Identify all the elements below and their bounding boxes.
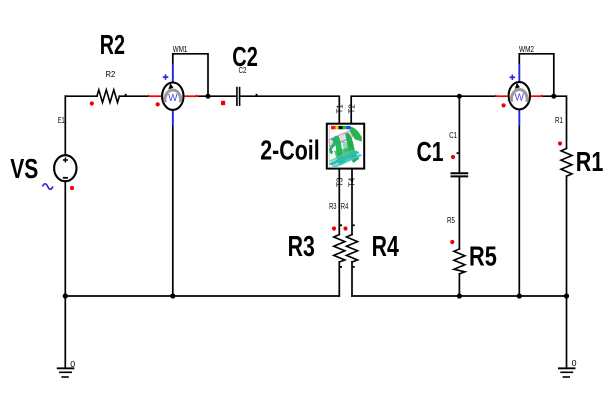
- svg-text:2-Coil: 2-Coil: [260, 135, 320, 166]
- svg-text:R2: R2: [100, 29, 125, 60]
- svg-text:WM1: WM1: [173, 45, 188, 54]
- svg-text:C1: C1: [449, 131, 457, 140]
- svg-text:R5: R5: [447, 216, 455, 225]
- svg-text:T3: T3: [336, 177, 345, 187]
- svg-text:R4: R4: [372, 231, 399, 263]
- svg-text:R1: R1: [555, 116, 563, 125]
- svg-text:R5: R5: [469, 240, 497, 271]
- svg-text:W: W: [168, 93, 178, 104]
- svg-text:R4: R4: [341, 202, 349, 211]
- svg-text:T4: T4: [348, 177, 357, 187]
- svg-text:VS: VS: [10, 153, 38, 184]
- svg-text:T2: T2: [348, 104, 357, 114]
- svg-text:R1: R1: [576, 146, 604, 177]
- svg-text:R2: R2: [106, 70, 116, 79]
- svg-text:R3: R3: [288, 231, 315, 263]
- svg-text:T1: T1: [336, 104, 345, 114]
- svg-text:WM2: WM2: [519, 45, 534, 54]
- svg-text:R3: R3: [329, 202, 337, 211]
- svg-text:C2: C2: [239, 66, 247, 75]
- svg-text:W: W: [515, 92, 525, 103]
- svg-text:C1: C1: [417, 136, 444, 167]
- svg-text:0: 0: [70, 360, 76, 369]
- svg-text:E1: E1: [58, 116, 65, 125]
- svg-text:0: 0: [572, 359, 578, 368]
